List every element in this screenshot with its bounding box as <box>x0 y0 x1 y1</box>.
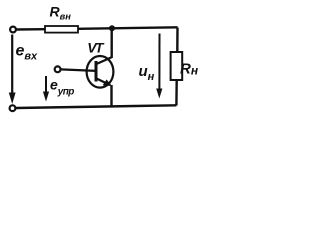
svg-text:Rн: Rн <box>180 61 199 78</box>
